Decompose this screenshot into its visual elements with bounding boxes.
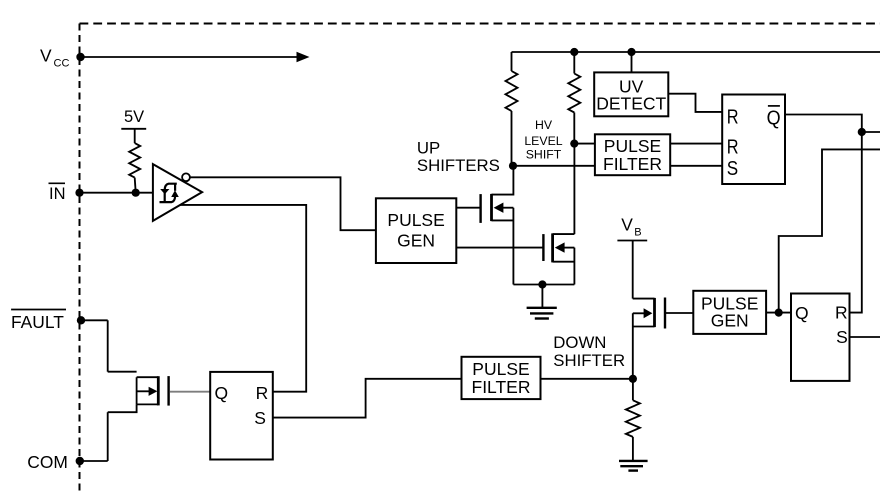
svg-text:DETECT: DETECT [596, 94, 666, 114]
svg-text:GEN: GEN [397, 230, 435, 250]
svg-text:V: V [621, 215, 633, 235]
svg-text:FAULT: FAULT [11, 312, 64, 332]
svg-text:HV: HV [535, 118, 553, 132]
svg-text:S: S [254, 408, 266, 428]
svg-text:SHIFTERS: SHIFTERS [417, 156, 500, 175]
svg-text:IN: IN [49, 185, 66, 203]
svg-text:R: R [256, 383, 269, 403]
svg-text:S: S [727, 157, 738, 180]
svg-text:R: R [727, 105, 739, 128]
svg-text:FILTER: FILTER [472, 377, 531, 397]
svg-text:CC: CC [54, 58, 70, 70]
svg-text:UP: UP [417, 138, 440, 157]
svg-text:S: S [836, 327, 848, 347]
svg-text:R: R [727, 137, 739, 159]
svg-text:B: B [634, 227, 641, 239]
svg-text:Q: Q [795, 303, 809, 323]
svg-text:LEVEL: LEVEL [524, 134, 562, 148]
svg-text:PULSE: PULSE [472, 359, 529, 379]
svg-text:PULSE: PULSE [387, 210, 444, 230]
svg-text:DOWN: DOWN [553, 333, 606, 352]
svg-text:SHIFTER: SHIFTER [553, 351, 625, 370]
svg-text:COM: COM [27, 452, 68, 472]
svg-text:V: V [40, 46, 52, 66]
svg-text:GEN: GEN [711, 310, 749, 330]
svg-text:R: R [835, 302, 848, 322]
svg-text:Q: Q [215, 383, 229, 403]
svg-text:PULSE: PULSE [604, 136, 661, 156]
svg-text:FILTER: FILTER [603, 154, 662, 174]
svg-text:Q: Q [767, 107, 781, 129]
svg-text:5V: 5V [124, 108, 144, 126]
svg-text:SHIFT: SHIFT [526, 148, 562, 162]
